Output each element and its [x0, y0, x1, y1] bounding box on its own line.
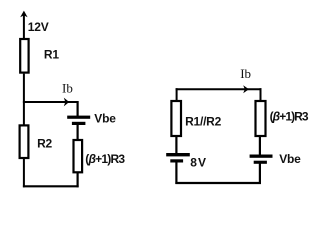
- wire Ib branch horizontal: [23, 101, 78, 103]
- wire R1 to R2: [23, 74, 25, 126]
- resistor (β+1)R3 left: [74, 140, 83, 172]
- svg-text:Vbe: Vbe: [94, 112, 116, 126]
- 12V supply arrow: [20, 11, 27, 39]
- Ib arrowhead right: [243, 85, 249, 93]
- bottom wire right circuit: [175, 182, 261, 184]
- resistor R1: [20, 39, 28, 73]
- svg-text:8V: 8V: [190, 155, 206, 169]
- Ib arrowhead: [64, 98, 69, 107]
- top wire right circuit: [176, 88, 262, 90]
- wire R3 to Vbe battery right: [259, 136, 261, 156]
- left rail top right circuit: [176, 88, 178, 101]
- wire down to Vbe: [76, 101, 78, 117]
- battery Vbe right plate short: [254, 161, 267, 164]
- wire Vbe right to bottom: [259, 164, 261, 185]
- battery 8V plate long: [166, 153, 190, 156]
- right rail top right circuit: [260, 88, 262, 101]
- svg-text:Ib: Ib: [62, 80, 73, 95]
- wire Vbe to R3: [76, 125, 78, 141]
- svg-text:12V: 12V: [28, 20, 49, 34]
- battery 8V plate short: [170, 159, 183, 162]
- wire R2 to bottom: [23, 159, 25, 188]
- svg-text:(β+1)R3: (β+1)R3: [85, 152, 125, 166]
- svg-text:R1: R1: [44, 47, 59, 61]
- resistor R1//R2: [171, 101, 181, 136]
- battery Vbe left plate long: [67, 116, 90, 119]
- battery Vbe left plate short: [72, 122, 86, 125]
- svg-text:R2: R2: [37, 137, 52, 151]
- svg-text:Vbe: Vbe: [279, 152, 301, 166]
- svg-text:R1//R2: R1//R2: [185, 114, 222, 128]
- resistor (β+1)R3 right: [256, 101, 266, 136]
- svg-text:Ib: Ib: [240, 66, 251, 81]
- wire R3 to bottom: [76, 173, 78, 188]
- wire R1//R2 to 8V battery: [175, 136, 177, 154]
- bottom wire left circuit: [23, 185, 79, 187]
- svg-text:(β+1)R3: (β+1)R3: [270, 109, 309, 123]
- resistor R2: [20, 125, 29, 158]
- battery Vbe right plate long: [250, 155, 273, 158]
- wire 8V to bottom: [175, 162, 177, 184]
